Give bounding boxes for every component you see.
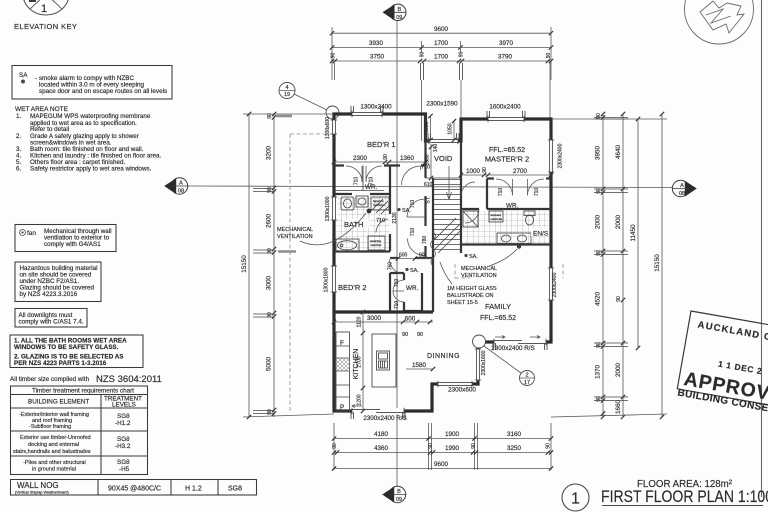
right dimension 11450 xyxy=(630,117,640,350)
svg-text:BATH: BATH xyxy=(344,220,363,229)
svg-text:1700: 1700 xyxy=(434,54,449,61)
svg-text:B: B xyxy=(397,7,401,13)
ensuite north wall xyxy=(461,208,551,210)
top grid stubs xyxy=(420,63,422,80)
svg-text:610: 610 xyxy=(424,182,433,188)
dashed roof line xyxy=(289,134,291,411)
svg-text:710: 710 xyxy=(498,188,504,197)
svg-text:B: B xyxy=(397,489,401,495)
svg-text:SA.: SA. xyxy=(469,254,478,260)
svg-text:09: 09 xyxy=(396,15,402,21)
left overall dimension 15150 xyxy=(241,112,334,419)
svg-text:MECHANICAL: MECHANICAL xyxy=(461,266,497,272)
bed1 wardrobe doors xyxy=(346,166,382,182)
dim kitchen top 3000/600 xyxy=(332,315,433,338)
svg-text:11450: 11450 xyxy=(630,224,637,242)
svg-text:710: 710 xyxy=(410,200,416,209)
ensuite cabinet xyxy=(489,211,503,222)
detail marker circle on wall xyxy=(473,335,486,348)
svg-text:2300x2400: 2300x2400 xyxy=(552,272,558,297)
svg-text:SG8: SG8 xyxy=(117,413,130,420)
svg-text:15150: 15150 xyxy=(654,254,661,272)
svg-text:FAMILY: FAMILY xyxy=(485,302,511,311)
title circle 1 xyxy=(562,484,589,511)
svg-text:1050: 1050 xyxy=(448,123,454,134)
void floor edge xyxy=(426,177,462,179)
svg-text:machine: machine xyxy=(370,243,382,247)
elevation key symbol xyxy=(23,0,69,15)
section marker B/09 top xyxy=(383,4,407,21)
kitchen island xyxy=(372,334,396,387)
svg-text:WR.: WR. xyxy=(406,285,418,292)
svg-text:4: 4 xyxy=(285,85,288,91)
svg-text:08: 08 xyxy=(679,191,685,197)
window 2300x1600 dinning east wall xyxy=(475,349,481,380)
svg-text:SG8: SG8 xyxy=(117,459,130,466)
corridor door upper 710 xyxy=(407,199,425,217)
svg-text:90: 90 xyxy=(428,443,434,449)
svg-text:140: 140 xyxy=(433,144,439,153)
svg-text:space door and on escape route: space door and on escape routes on all l… xyxy=(39,88,167,95)
window 1300x2400 bedroom1 top xyxy=(352,111,382,117)
stairs west wall xyxy=(432,178,434,253)
wall nog schedule bar xyxy=(11,480,257,496)
wardrobe divider bed1 xyxy=(334,166,384,191)
svg-text:2600: 2600 xyxy=(266,214,273,229)
svg-text:90: 90 xyxy=(419,253,425,259)
svg-text:VENTILATION: VENTILATION xyxy=(277,234,313,240)
svg-text:90: 90 xyxy=(383,154,389,160)
svg-text:WINDOWS TO BE SAFETY GLASS.: WINDOWS TO BE SAFETY GLASS. xyxy=(14,344,119,351)
safety glass note box xyxy=(10,335,143,368)
bath door xyxy=(376,219,388,233)
ensuite tile floor xyxy=(463,211,549,244)
bottom extension lines xyxy=(333,423,335,470)
svg-text:600: 600 xyxy=(405,316,416,323)
room label EN/S xyxy=(531,228,549,237)
window 2300x2400 master right wall xyxy=(548,140,554,172)
svg-text:WET AREA NOTE: WET AREA NOTE xyxy=(15,106,69,113)
svg-text:1300x1800: 1300x1800 xyxy=(324,267,330,292)
svg-text:2000: 2000 xyxy=(615,363,622,378)
right chain 3950/2000/4520/1370 xyxy=(595,112,606,419)
right grid stubs xyxy=(594,117,628,119)
svg-text:1700: 1700 xyxy=(434,40,449,47)
top dimension row 3750/1700/3790 with 90s xyxy=(330,52,553,64)
svg-text:710: 710 xyxy=(410,228,416,237)
svg-text:90X45 @480C/C: 90X45 @480C/C xyxy=(108,486,161,493)
svg-text:3790: 3790 xyxy=(498,54,513,61)
timber treatment table xyxy=(11,386,148,475)
ensuite south wall xyxy=(461,243,551,245)
svg-text:SA.: SA. xyxy=(410,268,419,274)
svg-text:90: 90 xyxy=(402,332,408,338)
interior wall bed1 south xyxy=(334,164,426,166)
svg-text:90: 90 xyxy=(331,53,337,59)
svg-text:710: 710 xyxy=(394,279,400,288)
window 1300x600 left wall xyxy=(331,120,337,134)
svg-text:780: 780 xyxy=(422,236,428,245)
svg-text:08: 08 xyxy=(178,189,184,195)
dim bed1 2300/1360 xyxy=(332,154,428,164)
svg-text:Safety restrictor apply to wet: Safety restrictor apply to wet area wind… xyxy=(30,166,152,173)
svg-text:Timber treatment requirements: Timber treatment requirements chart xyxy=(32,388,134,395)
svg-text:EN/S: EN/S xyxy=(533,231,549,238)
kitchen hatched box xyxy=(336,358,350,371)
svg-text:710: 710 xyxy=(534,188,540,197)
section line B-B vertical xyxy=(396,21,398,486)
bed2 wardrobe doors xyxy=(393,280,404,302)
top dimension row 3930/1700/3970 xyxy=(330,40,553,53)
svg-text:1000: 1000 xyxy=(466,168,481,175)
window 2300x600 dinning wall xyxy=(438,381,472,387)
svg-text:2700: 2700 xyxy=(357,356,363,367)
dim kitchen vertical 1120/2700/1200 xyxy=(357,310,366,413)
svg-text:BUILDING ELEMENT: BUILDING ELEMENT xyxy=(28,399,89,406)
svg-text:PER NZS 4223 PARTS 1-3.2016: PER NZS 4223 PARTS 1-3.2016 xyxy=(14,360,107,367)
svg-text:F: F xyxy=(340,340,344,347)
svg-text:1300x600: 1300x600 xyxy=(325,117,331,139)
right dimension 15150 xyxy=(654,112,664,419)
svg-text:4360: 4360 xyxy=(374,445,389,452)
svg-text:2.: 2. xyxy=(16,133,22,140)
svg-text:2300x1590: 2300x1590 xyxy=(426,101,458,108)
bed2 south wall xyxy=(334,310,433,313)
svg-text:A: A xyxy=(680,183,684,189)
svg-text:1120: 1120 xyxy=(357,316,363,327)
svg-text:6.: 6. xyxy=(16,166,22,173)
svg-text:710: 710 xyxy=(354,177,360,186)
svg-text:SG8: SG8 xyxy=(117,436,130,443)
svg-text:15150: 15150 xyxy=(241,255,248,273)
svg-text:1M HEIGHT GLASS: 1M HEIGHT GLASS xyxy=(447,286,497,292)
svg-text:(Vertical Shiplap Weatherboard: (Vertical Shiplap Weatherboard) xyxy=(15,491,69,495)
slider 2300x2400 R/S kitchen bottom xyxy=(352,408,404,414)
fan note box xyxy=(15,225,116,252)
svg-text:1370: 1370 xyxy=(595,365,602,380)
svg-text:BED'R 2: BED'R 2 xyxy=(338,283,367,292)
svg-text:-H5: -H5 xyxy=(119,466,130,473)
elevation marker 4/19 with leader xyxy=(279,83,339,120)
dashed roof corner right xyxy=(455,264,563,278)
bed2 wr walls xyxy=(390,273,422,311)
ensuite toilet xyxy=(524,211,535,216)
svg-text:90: 90 xyxy=(546,53,552,59)
svg-text:SA: SA xyxy=(19,72,28,79)
svg-text:FFL.=65.52: FFL.=65.52 xyxy=(480,315,516,322)
svg-text:WR.: WR. xyxy=(506,203,518,210)
svg-text:90: 90 xyxy=(482,167,488,173)
svg-text:DINNING: DINNING xyxy=(427,353,460,360)
window 1300x1800 bed2 left wall xyxy=(331,266,337,292)
svg-text:2300x2400 R/S: 2300x2400 R/S xyxy=(363,415,406,422)
svg-text:WALL NOG: WALL NOG xyxy=(17,481,59,490)
svg-text:MECHANICAL: MECHANICAL xyxy=(277,227,313,233)
ensuite door xyxy=(465,209,479,223)
master west wall xyxy=(460,141,462,253)
svg-text:17: 17 xyxy=(524,380,530,386)
svg-text:SHEET 15-5: SHEET 15-5 xyxy=(447,300,478,306)
svg-text:P: P xyxy=(340,404,344,411)
svg-text:3930: 3930 xyxy=(369,40,384,47)
svg-text:1200: 1200 xyxy=(357,394,363,405)
svg-text:19: 19 xyxy=(284,92,290,98)
left grid stubs xyxy=(253,188,274,190)
smoke alarm note box SA xyxy=(12,66,172,100)
svg-text:Exterior use timber-Unroofed: Exterior use timber-Unroofed xyxy=(20,435,91,441)
svg-text:2700: 2700 xyxy=(513,168,528,175)
svg-text:NZS 3604:2011: NZS 3604:2011 xyxy=(96,374,162,385)
master wr west wall xyxy=(486,179,488,210)
section marker A/08 left xyxy=(164,178,188,195)
stairs arrow xyxy=(447,166,452,200)
svg-text:1220: 1220 xyxy=(424,121,430,132)
ensuite vanity two basins xyxy=(497,233,531,244)
svg-text:3200: 3200 xyxy=(266,146,273,161)
bath basin xyxy=(356,196,368,207)
svg-text:710: 710 xyxy=(376,218,385,224)
svg-text:ST.: ST. xyxy=(426,196,432,203)
section marker A/08 right xyxy=(672,180,697,197)
svg-text:3250: 3250 xyxy=(507,445,522,452)
svg-text:1580: 1580 xyxy=(412,362,427,369)
svg-text:1300x2400: 1300x2400 xyxy=(360,104,392,111)
dim void 1220/1050 xyxy=(424,114,456,142)
section line A-A horizontal xyxy=(188,186,672,188)
svg-text:3950: 3950 xyxy=(595,146,602,161)
svg-text:600: 600 xyxy=(399,253,408,259)
svg-text:90: 90 xyxy=(616,296,622,302)
svg-text:ELEVATION KEY: ELEVATION KEY xyxy=(14,22,77,31)
bottom dimension row 4180/1900/3160 xyxy=(332,431,553,441)
svg-text:-H3.2: -H3.2 xyxy=(115,443,131,450)
dim dinning 1580 xyxy=(406,362,435,371)
bath tub xyxy=(336,239,359,252)
svg-text:by NZS 4223.3.2016: by NZS 4223.3.2016 xyxy=(20,291,78,298)
svg-text:2300x1600: 2300x1600 xyxy=(481,350,487,375)
bath tile floor xyxy=(336,196,390,250)
window 1300x1000 bath left wall xyxy=(331,197,337,220)
svg-text:FFL.=65.52: FFL.=65.52 xyxy=(489,147,525,154)
svg-text:2300x2400 R/S: 2300x2400 R/S xyxy=(491,345,534,352)
svg-text:stairs,handrails and balustrad: stairs,handrails and balustrades xyxy=(13,449,91,455)
svg-text:-Subfloor framing: -Subfloor framing xyxy=(29,424,71,430)
svg-text:1.: 1. xyxy=(16,113,22,120)
svg-text:1360: 1360 xyxy=(400,155,415,162)
svg-text:cab/robe: cab/robe xyxy=(373,203,385,207)
svg-text:760: 760 xyxy=(388,262,394,271)
downlights note box xyxy=(15,309,87,328)
svg-text:3000: 3000 xyxy=(266,276,273,291)
svg-text:SG8: SG8 xyxy=(228,486,242,493)
svg-text:3160: 3160 xyxy=(507,431,522,438)
svg-text:1300x1000: 1300x1000 xyxy=(325,196,331,221)
svg-text:2000: 2000 xyxy=(615,215,622,230)
svg-text:cab/robe: cab/robe xyxy=(491,217,503,221)
top dimension 9600 xyxy=(330,26,553,80)
bottom dimension row 4360/1990/3250 with 90s xyxy=(332,443,553,455)
stair hatch xyxy=(434,218,460,253)
svg-text:VENTILATION: VENTILATION xyxy=(461,273,497,279)
svg-text:2300: 2300 xyxy=(353,155,368,162)
master wardrobe doors xyxy=(496,179,544,196)
right border line xyxy=(761,0,763,497)
svg-text:1: 1 xyxy=(41,3,47,15)
svg-text:9600: 9600 xyxy=(434,26,449,33)
svg-text:90: 90 xyxy=(546,443,552,449)
bed1 door xyxy=(402,166,421,185)
room label BATH xyxy=(343,219,369,228)
svg-text:All timber size complied with: All timber size complied with xyxy=(10,376,90,383)
right chain 2 xyxy=(615,112,625,419)
interior wall bath east xyxy=(389,166,391,252)
bottom dimension 9600 xyxy=(332,461,553,471)
svg-text:4180: 4180 xyxy=(374,431,389,438)
interior wall bath north xyxy=(334,193,390,195)
window 2300x1590 void top xyxy=(429,138,458,144)
washing machine xyxy=(368,236,385,250)
svg-text:A: A xyxy=(179,181,183,187)
svg-text:4640: 4640 xyxy=(615,145,622,160)
svg-text:BALUSTRADE ON: BALUSTRADE ON xyxy=(447,293,493,299)
svg-text:2000: 2000 xyxy=(595,215,602,230)
svg-text:710: 710 xyxy=(369,177,375,186)
svg-text:90: 90 xyxy=(420,52,426,58)
svg-text:H 1.2: H 1.2 xyxy=(185,486,202,493)
approved stamp xyxy=(676,311,768,421)
svg-text:90: 90 xyxy=(459,52,465,58)
svg-text:710: 710 xyxy=(421,165,430,171)
svg-text:90: 90 xyxy=(332,443,338,449)
left segment chain 3200/2600/3000/5000 xyxy=(266,112,277,417)
stairs balustrade xyxy=(431,232,436,266)
detail marker 2/17 xyxy=(520,371,535,387)
window 2300x2400 family right wall xyxy=(548,268,554,300)
slider 2300x2400 R/S family bottom xyxy=(494,339,546,345)
svg-text:LEVELS: LEVELS xyxy=(112,402,136,409)
svg-text:3970: 3970 xyxy=(499,40,514,47)
svg-text:-H1.2: -H1.2 xyxy=(115,420,131,427)
svg-text:comply with C/AS1 7.4.: comply with C/AS1 7.4. xyxy=(19,319,84,326)
window jamb ticks bottom xyxy=(351,343,547,419)
svg-text:3750: 3750 xyxy=(370,54,385,61)
svg-text:VOID: VOID xyxy=(434,154,453,163)
passage door master xyxy=(461,182,475,196)
north arrow xyxy=(685,0,754,44)
svg-text:90: 90 xyxy=(471,443,477,449)
bath toilet xyxy=(341,197,354,210)
svg-text:comply with G4/AS1: comply with G4/AS1 xyxy=(44,241,101,248)
wet area note xyxy=(15,106,162,173)
interior wall bed1 east / corridor xyxy=(424,114,426,178)
svg-text:90: 90 xyxy=(267,113,273,119)
svg-text:1900: 1900 xyxy=(445,431,460,438)
bath vanity cabinet xyxy=(371,197,389,210)
svg-text:1990: 1990 xyxy=(445,445,460,452)
section marker B/09 bottom xyxy=(382,486,406,503)
svg-text:4520: 4520 xyxy=(595,292,602,307)
dim void 140/1850 xyxy=(425,144,440,181)
svg-text:90: 90 xyxy=(417,332,423,338)
svg-text:09: 09 xyxy=(396,497,402,503)
master south wall xyxy=(487,177,551,179)
svg-text:2300x2400: 2300x2400 xyxy=(558,143,564,168)
outer wall perimeter xyxy=(334,114,551,411)
svg-text:5000: 5000 xyxy=(266,357,273,372)
ensuite shower xyxy=(463,211,478,227)
svg-text:fan: fan xyxy=(27,230,36,237)
svg-text:MASTER'R 2: MASTER'R 2 xyxy=(485,155,529,164)
svg-text:1600x2400: 1600x2400 xyxy=(489,104,521,111)
slider arrows xyxy=(495,336,540,339)
hazardous material note box xyxy=(15,262,101,302)
corridor door lower 710 xyxy=(408,239,425,256)
svg-text:3000: 3000 xyxy=(367,315,382,322)
bed2 door xyxy=(390,259,405,274)
svg-text:2: 2 xyxy=(525,373,528,379)
svg-text:2300x600: 2300x600 xyxy=(448,387,476,394)
corridor east wall lower xyxy=(390,196,433,312)
stairs treads xyxy=(434,180,460,250)
svg-text:710: 710 xyxy=(394,301,400,310)
svg-text:in ground material: in ground material xyxy=(32,467,76,473)
svg-text:1660: 1660 xyxy=(615,400,622,415)
smoke alarm markers xyxy=(397,208,400,211)
window 1600x2400 master top xyxy=(488,116,524,122)
svg-text:9600: 9600 xyxy=(434,461,449,468)
svg-text:2130: 2130 xyxy=(392,212,398,223)
interior wall bath south xyxy=(334,250,390,252)
svg-text:FIRST FLOOR PLAN 1:100: FIRST FLOOR PLAN 1:100 xyxy=(601,488,768,506)
svg-text:BED'R 1: BED'R 1 xyxy=(367,140,396,149)
svg-text:1: 1 xyxy=(571,491,580,508)
svg-text:-Piles and other structural: -Piles and other structural xyxy=(23,460,86,466)
window jamb ticks top xyxy=(351,106,525,140)
kitchen cabinet strip xyxy=(336,332,350,411)
svg-text:decking and enternal: decking and enternal xyxy=(28,442,79,448)
dim master 1000/2700 xyxy=(459,167,553,177)
